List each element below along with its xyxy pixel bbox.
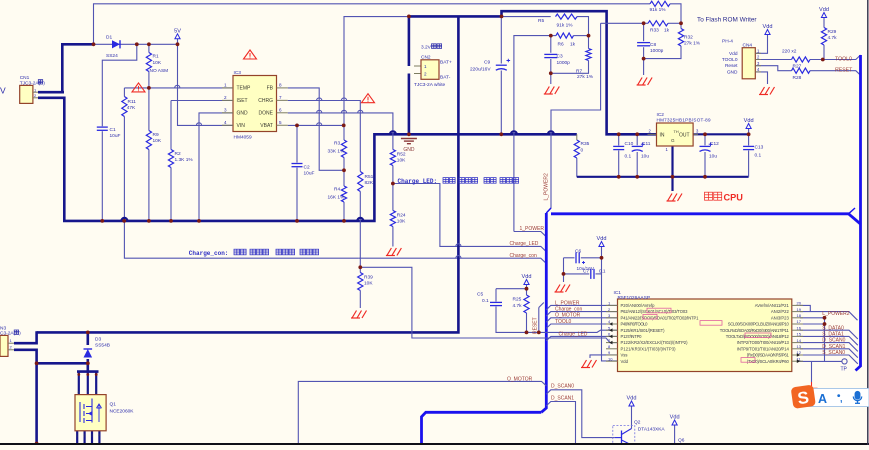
ground symbol below R39 (351, 317, 360, 319)
IC1 pin 4 stub (606, 323, 618, 325)
wire CN1 pin2 to ground bus (38, 98, 103, 221)
wire To-Flash CN4 pin1 to Vdd (755, 35, 767, 54)
wire R33 row (601, 22, 644, 24)
IC1 pin 5 stub (606, 329, 618, 331)
svg-text:4.7k: 4.7k (828, 35, 838, 41)
svg-text:Charge_con: Charge_con (510, 253, 537, 259)
svg-text:Charge_con: Charge_con (555, 307, 582, 313)
svg-text:R39: R39 (364, 274, 373, 280)
wire CN2 BAT- to ground bus (408, 74, 411, 135)
svg-text:OUT: OUT (679, 132, 690, 138)
svg-text:TOOLTxD/(SDO00/SO00)/ANI18/P12: TOOLTxD/(SDO00/SO00)/ANI18/P12 (726, 334, 790, 339)
svg-text:1: 1 (424, 64, 427, 69)
svg-text:Vdd: Vdd (627, 396, 637, 402)
svg-text:Vdd: Vdd (819, 7, 829, 13)
svg-text:S_DATA1: S_DATA1 (822, 332, 844, 338)
svg-text:10K: 10K (397, 219, 406, 225)
wire D1 anode-cathode row (94, 43, 178, 45)
svg-text:P20/ANI00/AVrefp: P20/ANI00/AVrefp (621, 303, 656, 308)
resistor R3 (341, 140, 346, 158)
ground symbol below IC2 (667, 200, 676, 202)
svg-text:(RxD0)/SDAA0/KR5/P61: (RxD0)/SDAA0/KR5/P61 (747, 353, 790, 358)
capacitor C7 (590, 269, 592, 279)
bus bottom to border (422, 412, 542, 443)
wire L_POWER1 to bus (514, 232, 546, 237)
svg-text:220u/16V: 220u/16V (470, 67, 491, 73)
svg-text:10K: 10K (397, 158, 406, 164)
svg-text:O_MOTOR: O_MOTOR (555, 313, 581, 319)
wire R29 column (823, 18, 825, 28)
capacitor C9 electrolytic (496, 64, 507, 66)
resistor R25 (524, 295, 529, 313)
svg-text:33K 1%: 33K 1% (328, 149, 346, 155)
svg-text:91k 1%: 91k 1% (650, 7, 667, 13)
warning symbol near R11 (132, 83, 145, 92)
svg-text:10u: 10u (709, 154, 717, 160)
svg-text:0.1: 0.1 (755, 153, 762, 159)
sheet border right (867, 0, 869, 445)
svg-text:2: 2 (224, 95, 227, 100)
diode D1 (112, 40, 120, 48)
svg-text:0: 0 (581, 148, 584, 154)
svg-text:SS54B: SS54B (95, 343, 110, 349)
svg-text:INTP2/TO00/TI00/ANI19/P13: INTP2/TO00/TI00/ANI19/P13 (737, 340, 790, 345)
svg-text:20: 20 (797, 301, 802, 306)
ground symbol below IC1 Vss (581, 367, 590, 369)
svg-text:NCE2060K: NCE2060K (110, 409, 135, 415)
svg-text:0.1: 0.1 (599, 268, 606, 273)
resistor R39 (358, 273, 363, 291)
svg-text:4: 4 (224, 120, 227, 125)
svg-text:Charge_LED:: Charge_LED: (398, 178, 438, 185)
svg-text:Charge_LED: Charge_LED (559, 331, 588, 337)
svg-text:C13: C13 (755, 144, 764, 150)
capacitor C6 electrolytic (575, 252, 577, 263)
svg-text:BAT+: BAT+ (440, 60, 452, 66)
svg-text:CPU: CPU (724, 193, 744, 203)
wire L_POWER2 sense drop (546, 23, 600, 213)
capacitor C13 (743, 145, 754, 147)
wire Vdd rail to IC1 pin10 (602, 246, 618, 361)
svg-text:3: 3 (224, 107, 227, 112)
wire Charge_LED tap to IC1 pin6 (546, 336, 617, 340)
svg-text:TOOLRxD/SDA00/RxD0/SI00/ANI17/: TOOLRxD/SDA00/RxD0/SI00/ANI17/P11 (720, 328, 790, 333)
wire Q1 top pins (78, 372, 80, 395)
svg-text:R24: R24 (397, 212, 406, 218)
wire battery+ down to motor switch row (37, 16, 459, 332)
resistor R35 (574, 140, 579, 158)
wire CN3 pin1 to switch row (14, 331, 37, 343)
wire top rail from D1 node to R31 (94, 4, 651, 45)
svg-text:R35: R35 (581, 141, 590, 147)
svg-text:INTP9/TO01/TI01/ANI20/P14: INTP9/TO01/TI01/ANI20/P14 (737, 346, 790, 351)
capacitor C11 electrolytic (632, 145, 643, 147)
svg-text:3.2V: 3.2V (421, 45, 432, 51)
svg-text:19: 19 (797, 307, 802, 312)
svg-text:HM4059: HM4059 (234, 134, 252, 140)
transistor Q2 DTA143XKA (613, 426, 635, 445)
svg-text:14: 14 (797, 338, 802, 343)
power flag Vdd above Q6 (672, 420, 677, 425)
svg-text:G: G (671, 138, 675, 143)
power flag 5V (175, 34, 180, 39)
svg-text:Q2: Q2 (634, 420, 641, 426)
wire C6/C7 ground stem (563, 274, 565, 282)
resistor R28 (792, 68, 811, 73)
svg-text:IC3: IC3 (234, 70, 242, 76)
svg-text:R5: R5 (538, 18, 544, 24)
svg-text:TJC3-2A white: TJC3-2A white (414, 82, 446, 88)
svg-text:ISET: ISET (237, 98, 248, 104)
svg-text:TOOL0: TOOL0 (835, 56, 852, 62)
svg-text:C3-2A(: C3-2A( (0, 331, 16, 337)
wire C3/R7 node to ground (550, 73, 552, 84)
svg-text:1k: 1k (664, 28, 670, 34)
sogou logo (791, 385, 816, 409)
wire Charge_con row right to bus (359, 258, 546, 263)
wire R35 stub (576, 134, 578, 140)
wire test point below IC1 (811, 361, 813, 382)
svg-text:10u: 10u (641, 154, 649, 160)
svg-text:47K: 47K (127, 105, 136, 111)
IC1 pin 2 stub (606, 311, 618, 313)
wire R51 bottom through bus to Charge_con node (359, 192, 361, 268)
wire D_SCAN1 down (546, 402, 575, 444)
wire R11 column and Charge_con row (123, 88, 125, 97)
svg-text:Vdd: Vdd (744, 118, 754, 124)
svg-text:R2: R2 (175, 151, 181, 157)
wire O_MOTOR row to motor drive (298, 381, 546, 443)
svg-text:5: 5 (279, 120, 282, 125)
svg-text:R5F1026AASP: R5F1026AASP (618, 295, 651, 301)
svg-text:TOOL0: TOOL0 (555, 319, 572, 325)
svg-text:GND: GND (727, 69, 738, 75)
wire hops (511, 131, 517, 134)
wire Charge_LED net to bus (393, 184, 546, 252)
IC1 pin 18 stub (792, 317, 803, 319)
wire CN4 pin2 TOOL0 row (755, 59, 791, 61)
svg-text:VBAT: VBAT (260, 123, 273, 129)
svg-text:8: 8 (279, 82, 282, 87)
resistor R32 (678, 29, 683, 47)
input method bar (806, 389, 869, 407)
IC1 pin 12 stub (792, 354, 803, 356)
svg-text:D1: D1 (106, 35, 112, 41)
svg-text:10K: 10K (153, 138, 162, 144)
svg-text:2: 2 (83, 434, 85, 438)
resistor R11 (122, 97, 127, 117)
IC1 pin 3 stub (606, 317, 618, 319)
svg-text:R25: R25 (513, 297, 522, 303)
input method microphone icon (853, 392, 861, 404)
wire CN4 pin3 reset jog (755, 66, 791, 71)
wire IC2 G pin to ground (671, 146, 673, 191)
connector CN2 (421, 60, 439, 80)
label close to CPU (705, 192, 713, 200)
svg-text:10: 10 (608, 356, 613, 361)
wire Q1 bottom pins to border (76, 431, 78, 444)
svg-text:Vdd: Vdd (522, 274, 532, 280)
svg-text:C12: C12 (710, 141, 719, 147)
wire IC1 pins 18/17 tie (824, 318, 826, 361)
svg-text:Vdd: Vdd (729, 51, 738, 57)
svg-text:R1: R1 (153, 54, 159, 60)
wire R5 row (502, 16, 551, 18)
IC1 pin 7 stub (606, 342, 618, 344)
svg-text:R33: R33 (650, 28, 659, 34)
svg-text:15: 15 (797, 332, 802, 337)
svg-text:C3: C3 (557, 54, 563, 60)
wire IC1 pin15 S_DATA1 to bus (800, 336, 858, 345)
wire Charge_con tap to IC1 pin2 (546, 312, 617, 316)
IC1 pin 17 stub (792, 323, 803, 325)
power flag Vdd above Q2 (629, 401, 634, 406)
svg-text:ANI2/P22: ANI2/P22 (771, 309, 790, 314)
svg-text:CHRG: CHRG (258, 98, 273, 104)
svg-text:16: 16 (797, 325, 802, 330)
svg-text:Charge_LED: Charge_LED (510, 241, 539, 247)
wire R52 bottom to Charge_LED node (392, 166, 394, 184)
svg-text:NO ASM: NO ASM (150, 68, 169, 74)
svg-text:D_SCAN0: D_SCAN0 (551, 384, 574, 390)
svg-text:D3: D3 (95, 337, 101, 343)
svg-text:1000p: 1000p (650, 48, 664, 54)
wire IC2 pin stubs (648, 133, 657, 135)
svg-text:27k 1%: 27k 1% (684, 40, 701, 46)
svg-text:C9: C9 (484, 60, 490, 66)
svg-text:HM7325HB1PB/SOT-89: HM7325HB1PB/SOT-89 (657, 118, 711, 123)
svg-text:SS24: SS24 (106, 53, 118, 59)
svg-text:TOOL0: TOOL0 (722, 57, 738, 63)
svg-text:0.1: 0.1 (625, 154, 632, 160)
IC1 pin 19 stub (792, 311, 803, 313)
svg-text:(TxD0)/SCLA0/KR4/P60: (TxD0)/SCLA0/KR4/P60 (747, 359, 790, 364)
wire C9 column (500, 16, 502, 63)
transistor Q1 NCE2060K (75, 395, 106, 431)
svg-text:C6: C6 (575, 249, 581, 255)
svg-text:3: 3 (91, 434, 93, 438)
svg-text:D_SCAN0: D_SCAN0 (822, 338, 845, 344)
wire D3 node to Q1 top bar (87, 363, 90, 371)
wire ISET row (171, 100, 233, 102)
diode D3 (84, 349, 93, 358)
wire R24 column to ground (392, 184, 394, 211)
svg-text:C2: C2 (304, 164, 310, 170)
IC1 pin 15 stub (792, 335, 803, 337)
wire R32 column (680, 23, 682, 28)
IC1 input arrow marks (609, 322, 612, 326)
svg-text:Vdd: Vdd (621, 359, 629, 364)
resistor R52 (390, 150, 395, 166)
wire BAT+ rail thick (408, 16, 411, 66)
resistor R9 (146, 131, 151, 150)
wire 5V input thick from CN1 pin1 (62, 44, 93, 92)
wire ground bus bottom left (102, 134, 577, 221)
svg-text:2: 2 (424, 72, 427, 77)
svg-text:BAT-: BAT- (440, 75, 451, 81)
ground symbol below C3 (544, 93, 553, 95)
svg-text:P40/KR0/TOOL0: P40/KR0/TOOL0 (621, 322, 649, 327)
wire C11 column (636, 134, 638, 145)
wire D_SCAN0 to Q2 (546, 390, 615, 438)
resistor R31 (650, 1, 670, 6)
power flag Vdd above R29 (821, 13, 826, 18)
svg-text:C11: C11 (642, 141, 651, 147)
IC1 highlight boxes on pin functions (647, 308, 671, 313)
wire CN4 pin4 to ground (755, 72, 767, 84)
wire CN2 pin stubs (414, 65, 421, 67)
svg-text:82K: 82K (365, 180, 374, 186)
resistor R27 (792, 57, 811, 62)
svg-text:S_SCAN0: S_SCAN0 (822, 350, 845, 356)
wire 5V branch to ISET/VIN (178, 44, 234, 125)
connector CN1 (20, 85, 33, 103)
svg-text:VIN: VIN (237, 123, 246, 129)
svg-text:R6: R6 (558, 41, 564, 47)
IC1 pin 6 stub (606, 335, 618, 337)
svg-text:AVrefm/ANI11/P21: AVrefm/ANI11/P21 (755, 303, 790, 308)
test point TP (842, 359, 847, 364)
svg-text:C1: C1 (110, 127, 116, 133)
svg-text:R29: R29 (828, 29, 837, 35)
IC1 pin 13 stub (792, 348, 803, 350)
svg-text:1k: 1k (570, 41, 576, 47)
ground symbol GND battery (401, 138, 417, 140)
power flag Vdd above C6 (599, 242, 604, 247)
resistor R2 (168, 150, 173, 168)
wire IC1 pin11 to test point (800, 360, 842, 362)
capacitor C5 (490, 301, 502, 303)
svg-text:L_POWER: L_POWER (555, 300, 580, 306)
svg-text:8: 8 (95, 390, 97, 394)
wire R6 row and L_POWER1 drop (514, 36, 551, 232)
ground symbol below CN4 (759, 94, 768, 96)
wire VBAT row (288, 124, 344, 126)
svg-text:P125/KR1/SI01/(RESET): P125/KR1/SI01/(RESET) (621, 328, 666, 333)
IC1 pin 16 stub (792, 329, 803, 331)
capacitor C12 electrolytic (700, 145, 711, 147)
wire IC1 pin20 to pin19 net (617, 298, 619, 300)
wire CHRG to R51 (288, 101, 361, 172)
svg-text:L_POWER2: L_POWER2 (822, 311, 849, 317)
wire O_MOTOR tap to IC1 pin3 (546, 318, 617, 322)
svg-text:C7: C7 (583, 268, 589, 273)
svg-text:,: , (840, 394, 843, 404)
svg-text:4.7k: 4.7k (513, 303, 523, 309)
svg-text:P137/INTP0: P137/INTP0 (621, 334, 643, 339)
svg-text:IN: IN (660, 132, 665, 138)
wire IC1 pin16 S_DATA0 to bus (800, 330, 858, 339)
IC1 pin 1 stub (606, 304, 618, 306)
capacitor C10 (613, 145, 624, 147)
svg-text:R11: R11 (128, 99, 137, 105)
wire IC3 GND pin3 to bus (199, 113, 233, 221)
svg-text:GND: GND (403, 147, 415, 153)
svg-text:1.3K 1%: 1.3K 1% (175, 157, 194, 163)
wire C6 row (564, 257, 575, 259)
svg-text:10uF: 10uF (304, 171, 315, 177)
svg-text:A: A (818, 392, 827, 406)
IC1 pin 14 stub (792, 342, 803, 344)
IC3 charger HM4059 (233, 76, 277, 132)
svg-text:TP: TP (841, 367, 848, 373)
capacitor C2 (292, 163, 303, 165)
svg-text:R51: R51 (365, 174, 374, 180)
sheet border bottom (0, 443, 869, 445)
svg-text:18: 18 (797, 313, 802, 318)
resistor R1 (146, 53, 151, 72)
wire C12 column (704, 134, 706, 145)
warning symbol near CHRG (362, 94, 375, 103)
wire C2 column (296, 125, 298, 162)
svg-text:17: 17 (797, 319, 802, 324)
IC1 pin 11 stub (792, 360, 803, 362)
svg-text:Vdd: Vdd (763, 24, 773, 30)
svg-text:O_MOTOR: O_MOTOR (507, 376, 533, 382)
svg-text:Vss: Vss (621, 353, 628, 358)
wire R28 to RESET row (810, 71, 861, 76)
capacitor C1 (97, 126, 108, 128)
svg-text:PH-4: PH-4 (722, 39, 733, 45)
junction dots (92, 42, 96, 46)
resistor R24 (390, 211, 395, 227)
svg-text:Charge_con:: Charge_con: (189, 250, 229, 257)
svg-text:TJC3-2A(: TJC3-2A( (20, 80, 41, 86)
Q1 top pin junction dots (77, 373, 80, 376)
svg-text:6: 6 (279, 107, 282, 112)
wire R2 column (170, 101, 172, 150)
capacitor C8 (637, 42, 650, 44)
svg-text:7: 7 (279, 95, 282, 100)
svg-text:R28: R28 (793, 75, 802, 81)
connector CN3 (0, 335, 8, 356)
bus left vertical (541, 213, 546, 412)
wire Q6 lead to Vdd (674, 425, 676, 444)
input method comma icon (837, 394, 840, 397)
wire 5V arrow stem (177, 39, 179, 45)
wire C8 bottom to ground (643, 59, 645, 75)
svg-text:5V: 5V (174, 28, 181, 34)
power flag Vdd above CN4 (765, 30, 770, 35)
IC1 pin 10 stub (606, 360, 618, 362)
wire R1/R9 column (148, 44, 150, 52)
svg-text:P122/KR2/X2/EXCLK/(TI02)/(INTP: P122/KR2/X2/EXCLK/(TI02)/(INTP2) (621, 340, 689, 345)
wire RESET net from C5/R25 to MCU (539, 303, 544, 308)
wire Vdd arrow to IC2 out (748, 129, 750, 135)
wire C10 column (618, 134, 620, 145)
wire C8 column (643, 23, 645, 41)
svg-text:V: V (0, 86, 6, 96)
wire IC1 Vss pin9 to ground (590, 355, 618, 358)
svg-text:R3: R3 (334, 141, 340, 147)
wire L_POWER tap to IC1 pin1 (546, 305, 617, 309)
svg-text:D_SCAN1: D_SCAN1 (551, 395, 574, 401)
resistor R29 (821, 28, 826, 46)
svg-text:Q1: Q1 (110, 402, 117, 408)
wire FB feedback to R3/R4 node (288, 88, 344, 170)
wire C13 column (748, 134, 750, 145)
svg-text:TEMP: TEMP (237, 86, 252, 92)
wire bus feed row to IC2 (607, 133, 749, 135)
svg-text:1: 1 (76, 434, 78, 438)
svg-text:R7: R7 (576, 69, 582, 75)
IC1 pin 9 stub (606, 354, 618, 356)
svg-text:N3: N3 (0, 326, 6, 332)
svg-text:220 x2: 220 x2 (782, 49, 797, 55)
svg-text:To Flash ROM Writer: To Flash ROM Writer (697, 17, 757, 24)
svg-text:91k 1%: 91k 1% (557, 22, 574, 28)
svg-text:L_POWER2: L_POWER2 (544, 173, 550, 200)
